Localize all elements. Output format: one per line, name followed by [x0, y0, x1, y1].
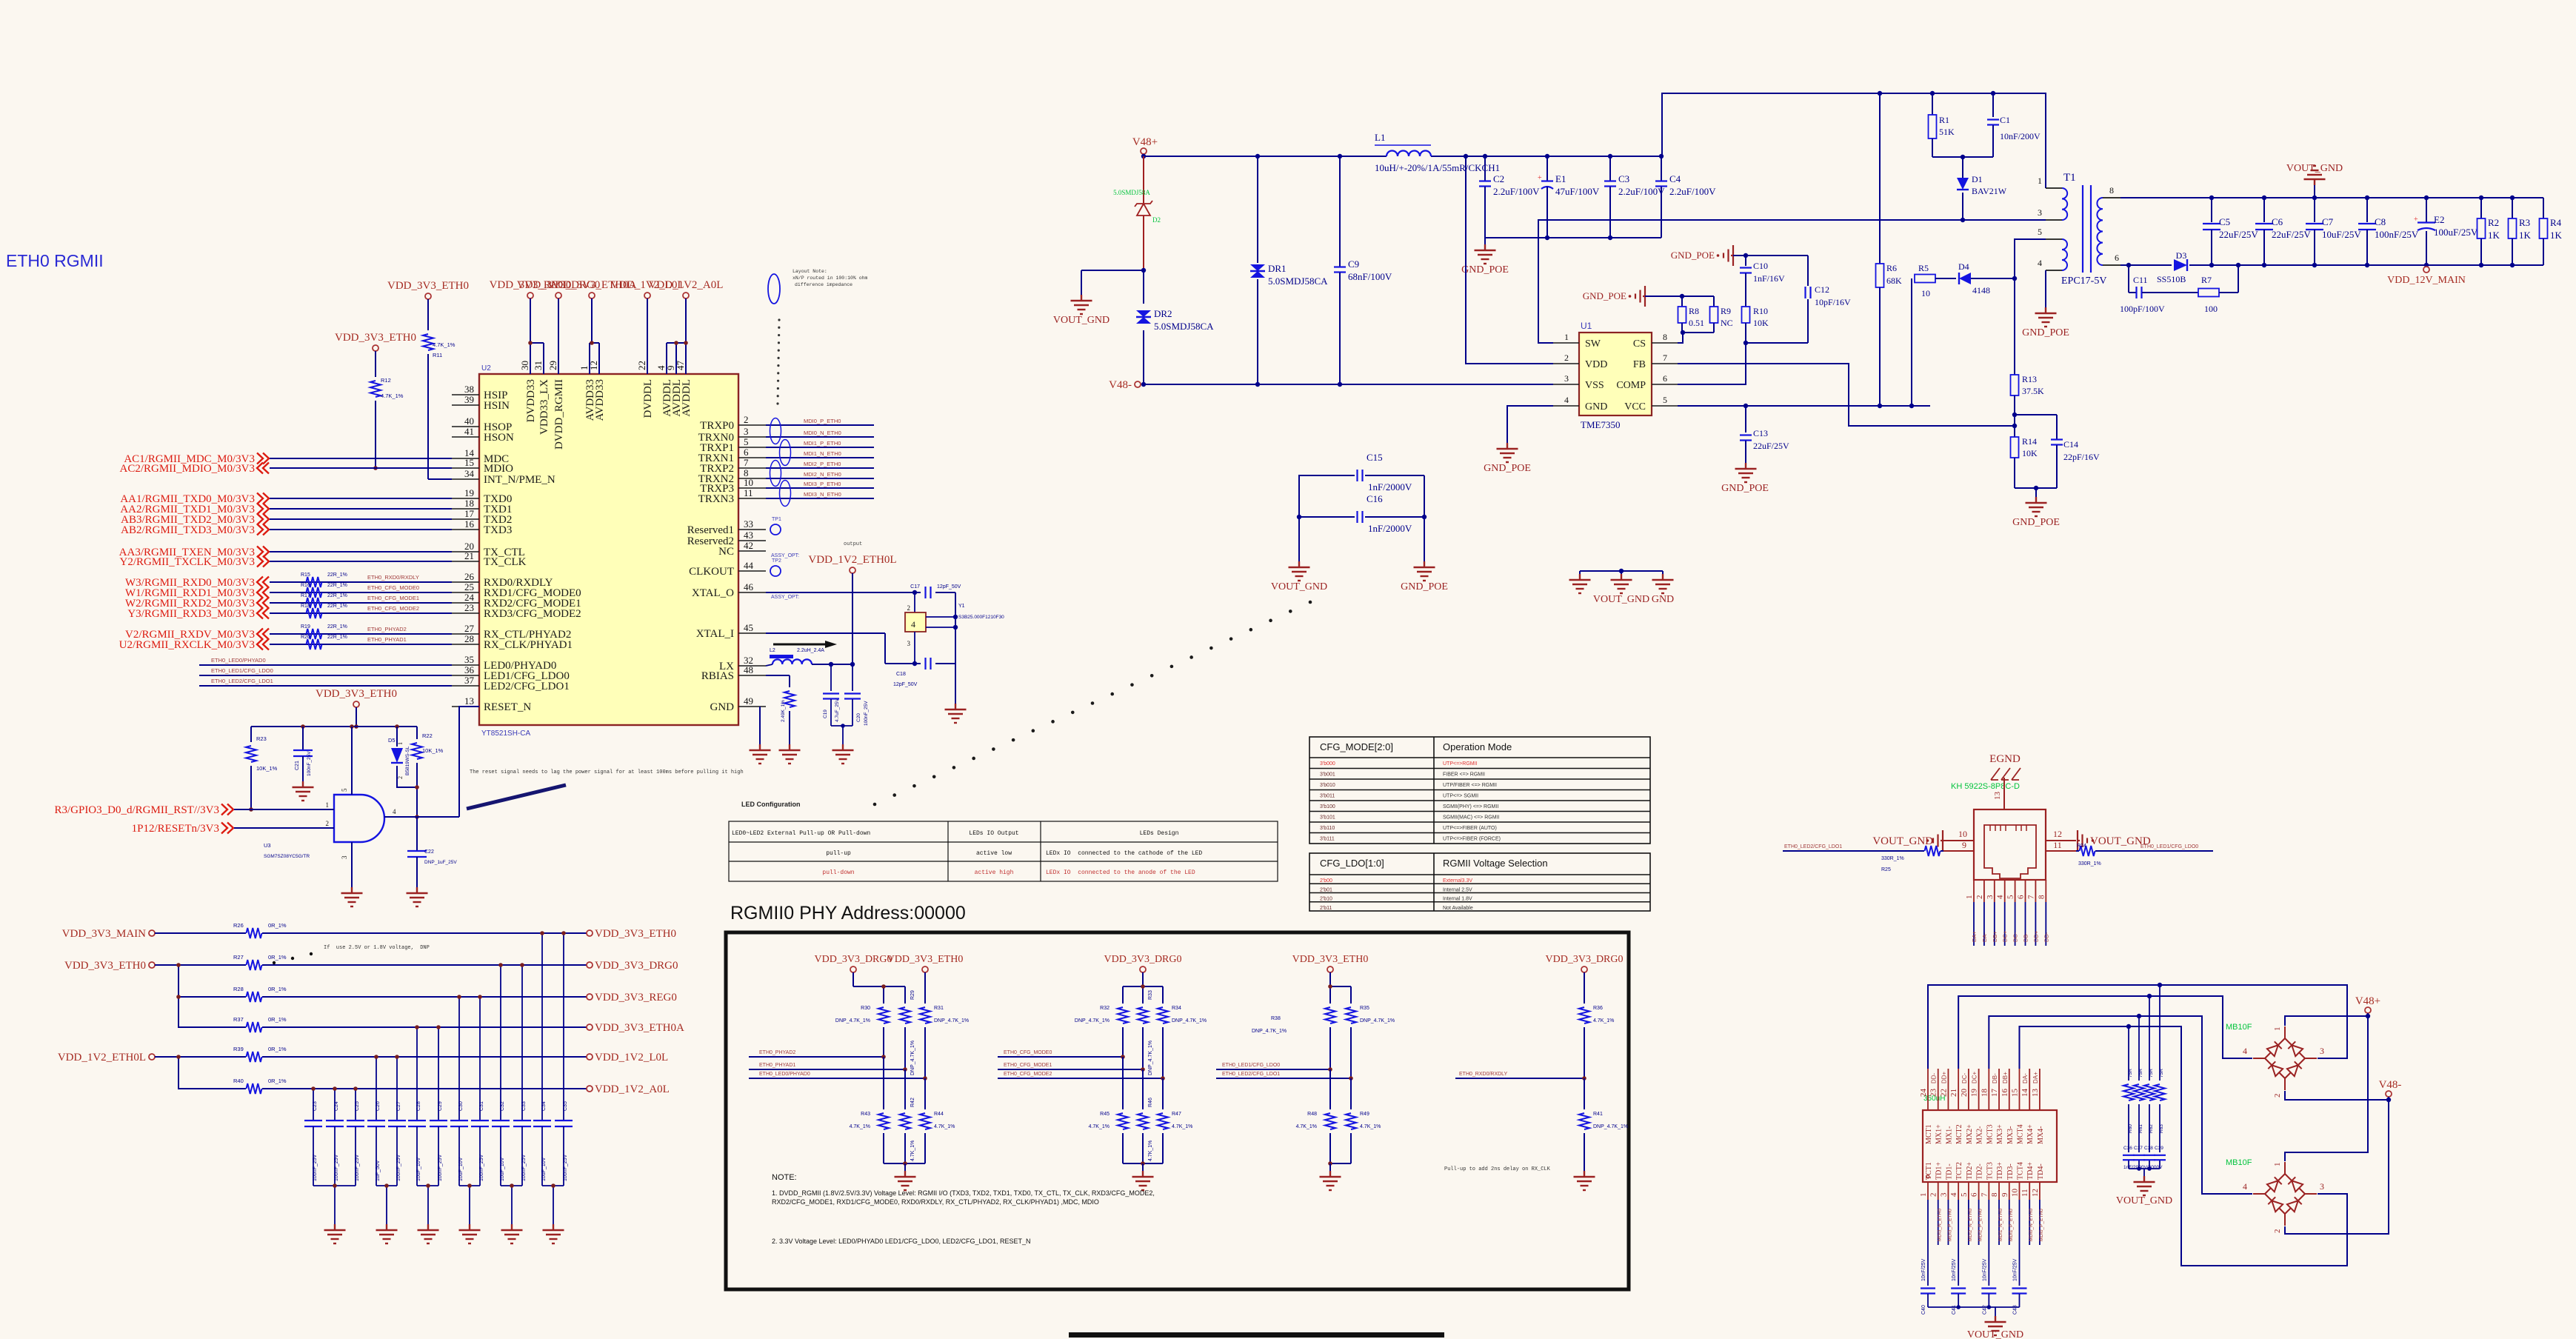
svg-text:SGMII(PHY) <=> RGMII: SGMII(PHY) <=> RGMII [1443, 804, 1498, 809]
wire V48- rail [1144, 384, 1553, 385]
svg-text:48: 48 [744, 664, 753, 675]
ground GND_POE (U1) [1506, 443, 1508, 449]
svg-text:40: 40 [464, 415, 474, 427]
transformer T1 secondary winding [2097, 198, 2103, 265]
svg-text:4.7K_1%: 4.7K_1% [850, 1124, 870, 1129]
svg-text:ETH0_RXD0/RXDLY: ETH0_RXD0/RXDLY [1459, 1072, 1508, 1077]
capacitor C40 10nF [1921, 1287, 1935, 1289]
svg-text:2: 2 [2273, 1229, 2282, 1234]
svg-text:75R: 75R [2159, 1069, 2164, 1078]
svg-text:C36: C36 [2123, 1146, 2132, 1151]
svg-text:5: 5 [744, 436, 749, 447]
svg-text:C1: C1 [2000, 115, 2010, 125]
svg-text:15: 15 [464, 457, 474, 468]
svg-text:12: 12 [2053, 829, 2062, 839]
svg-text:10uF/25V: 10uF/25V [2322, 229, 2361, 240]
svg-text:GND: GND [1652, 594, 1674, 605]
ground GND_POE (C16) [1424, 517, 1425, 561]
inductor L2 2.2uH [773, 659, 812, 664]
svg-text:1K: 1K [2488, 230, 2500, 241]
svg-text:R25: R25 [1881, 867, 1891, 872]
resistor R31 DNP_4.7K [920, 1007, 930, 1024]
svg-text:C6: C6 [2272, 216, 2283, 227]
U2 left pins with numbers [452, 394, 479, 395]
dotted diagonal line [873, 803, 877, 807]
svg-text:36: 36 [464, 664, 475, 675]
svg-text:10K: 10K [2022, 448, 2038, 458]
svg-text:22R_1%: 22R_1% [327, 624, 347, 630]
svg-text:0R_1%: 0R_1% [268, 986, 287, 992]
svg-text:R22: R22 [422, 732, 433, 739]
svg-text:1: 1 [2038, 176, 2042, 186]
magnetics bottom pins [1927, 1182, 1929, 1200]
svg-text:10uH/+-20%/1A/55mR/CKCH1: 10uH/+-20%/1A/55mR/CKCH1 [1375, 162, 1500, 173]
svg-text:DA-: DA- [2022, 1073, 2029, 1083]
svg-text:R38: R38 [1271, 1016, 1281, 1021]
svg-text:3'b001: 3'b001 [1320, 772, 1335, 778]
svg-text:DA+: DA+ [2032, 1072, 2039, 1083]
svg-text:RGMII0 PHY Address:00000: RGMII0 PHY Address:00000 [730, 903, 966, 924]
ground (U3 pin3) [351, 887, 353, 893]
svg-text:ETH0_LED1/CFG_LDO0: ETH0_LED1/CFG_LDO0 [2140, 844, 2198, 849]
svg-text:+: + [1538, 174, 1542, 182]
ground (C22) [416, 887, 418, 893]
svg-text:2'b00: 2'b00 [1320, 878, 1332, 884]
svg-text:1nF/16V: 1nF/16V [1753, 273, 1785, 284]
capacitor C35 [555, 1120, 573, 1121]
svg-text:MX4+: MX4+ [2026, 1124, 2035, 1144]
svg-text:DC-: DC- [1961, 1072, 1968, 1083]
svg-text:ETH0_PHYAD2: ETH0_PHYAD2 [759, 1050, 795, 1055]
svg-text:4: 4 [2243, 1046, 2247, 1056]
svg-text:TCT2: TCT2 [1955, 1162, 1963, 1180]
svg-text:Pull-up to add 2ns delay on RX: Pull-up to add 2ns delay on RX_CLK [1444, 1166, 1551, 1172]
svg-text:VDD_1V2_A0L: VDD_1V2_A0L [649, 279, 724, 291]
resistor R6 68K [1879, 93, 1881, 264]
inductor L1 10uH [1387, 151, 1431, 156]
svg-text:MX3+: MX3+ [1996, 1124, 2004, 1144]
svg-text:20: 20 [1960, 1089, 1969, 1098]
ground (decoupling 2) [376, 1185, 397, 1186]
svg-text:100uF/25V: 100uF/25V [2434, 227, 2478, 238]
svg-text:6: 6 [1663, 373, 1667, 384]
svg-text:R30: R30 [861, 1006, 870, 1011]
svg-text:C4: C4 [1669, 173, 1681, 184]
svg-text:SS510B: SS510B [2157, 274, 2186, 284]
svg-text:8: 8 [1663, 332, 1667, 342]
svg-text:2.2uH_2.4A: 2.2uH_2.4A [797, 648, 824, 653]
diode D2 5.0SMDJ58A [1143, 156, 1144, 203]
svg-text:4.7K_1%: 4.7K_1% [381, 393, 404, 399]
svg-text:VDD_1V2_A0L: VDD_1V2_A0L [595, 1083, 670, 1095]
svg-text:VDD_3V3_ETH0: VDD_3V3_ETH0 [887, 954, 964, 965]
svg-text:CS: CS [1633, 338, 1646, 350]
layout note ellipse [768, 274, 780, 304]
svg-text:1: 1 [397, 742, 404, 745]
svg-text:VOUT_GND: VOUT_GND [1872, 835, 1933, 847]
svg-text:4: 4 [911, 619, 915, 630]
svg-text:R39: R39 [233, 1046, 244, 1052]
svg-text:4.7K_1%: 4.7K_1% [433, 341, 456, 348]
svg-text:AVDD33: AVDD33 [594, 379, 606, 421]
svg-text:MCT3: MCT3 [1986, 1124, 1994, 1144]
resistor R43 4.7K [883, 1057, 884, 1109]
svg-text:ETH0 RGMII: ETH0 RGMII [6, 251, 104, 270]
svg-text:MDI0_N_ETH0: MDI0_N_ETH0 [2029, 1209, 2034, 1241]
svg-text:1: 1 [326, 801, 330, 809]
svg-text:31: 31 [533, 361, 544, 370]
svg-text:37: 37 [464, 675, 475, 686]
svg-text:R15: R15 [301, 572, 310, 578]
resistor R62 75R [2149, 996, 2150, 1081]
svg-text:BAV21W: BAV21W [1972, 186, 2007, 196]
resistor R40 0R [247, 1083, 262, 1094]
svg-text:TCT1: TCT1 [1925, 1162, 1933, 1180]
svg-text:10: 10 [2010, 1189, 2019, 1198]
ground VOUT_GND (output) [2314, 185, 2315, 198]
bridge rectifier BR1 MB10F [2285, 1038, 2305, 1058]
svg-text:DB-: DB- [1992, 1073, 1998, 1083]
capacitor C43 10nF [2012, 1287, 2026, 1289]
svg-text:R48: R48 [1307, 1112, 1317, 1117]
svg-text:HSON: HSON [484, 432, 514, 444]
svg-text:C11: C11 [2133, 275, 2148, 285]
capacitor C7 10uF/25V [2314, 198, 2315, 222]
wire ETH0_CFG_MODE2 [998, 1078, 1163, 1079]
capacitor C1 10nF [1992, 93, 1994, 117]
svg-text:28: 28 [464, 633, 474, 644]
resistor R5 10 [1911, 278, 1912, 406]
svg-text:38: 38 [464, 384, 474, 395]
resistor R17 22R [307, 598, 322, 608]
svg-text:35: 35 [464, 654, 474, 665]
diode D3 SS510B [2174, 259, 2187, 271]
svg-text:5.0SMDJ58CA: 5.0SMDJ58CA [1268, 276, 1328, 287]
svg-text:ETH0_LED2/CFG_LDO1: ETH0_LED2/CFG_LDO1 [1784, 844, 1842, 849]
resistor R20 22R [307, 639, 322, 650]
svg-text:SGMII(MAC) <=> RGMII: SGMII(MAC) <=> RGMII [1443, 815, 1499, 821]
diode D4 4148 [1959, 273, 1971, 284]
svg-text:ETH0_CFG_MODE1: ETH0_CFG_MODE1 [1004, 1063, 1052, 1068]
resistor R60 75R [2128, 1026, 2129, 1081]
svg-text:DNP_4.7K_1%: DNP_4.7K_1% [1252, 1029, 1287, 1034]
svg-text:R14: R14 [2022, 436, 2037, 447]
svg-text:VCC: VCC [1624, 401, 1646, 413]
svg-text:10nF/25V: 10nF/25V [1982, 1258, 1987, 1281]
svg-text:C24: C24 [334, 1101, 339, 1111]
wire rail corner up [1662, 93, 2046, 188]
diff pair ellipse 1 [770, 418, 781, 444]
svg-text:C9: C9 [1348, 258, 1359, 270]
svg-text:ETH0_CFG_MODE2: ETH0_CFG_MODE2 [1004, 1072, 1052, 1077]
svg-text:DA+: DA+ [1971, 931, 1978, 942]
svg-text:18: 18 [1980, 1089, 1989, 1098]
wire reset vdd rail [251, 726, 417, 727]
svg-text:active low: active low [976, 850, 1012, 857]
svg-text:VDD_3V3_ETH0: VDD_3V3_ETH0 [1292, 954, 1369, 965]
power port VDD_12V_MAIN [2423, 267, 2429, 273]
svg-text:C19: C19 [823, 709, 828, 718]
svg-text:RBIAS: RBIAS [701, 670, 734, 682]
svg-text:68nF/100V: 68nF/100V [1348, 271, 1392, 282]
table CFG_LDO [1309, 853, 1650, 911]
wire comp top rail [1733, 255, 1808, 256]
svg-text:8: 8 [2109, 185, 2114, 196]
U1 pins [1553, 342, 1579, 344]
svg-text:2'b10: 2'b10 [1320, 897, 1332, 902]
resistor R36 4.7K [1579, 1007, 1589, 1024]
svg-text:R49: R49 [1360, 1112, 1369, 1117]
svg-text:5: 5 [2006, 895, 2015, 899]
svg-text:11: 11 [2053, 840, 2062, 850]
svg-text:UTP/FIBER <=> RGMII: UTP/FIBER <=> RGMII [1443, 783, 1497, 788]
svg-text:30: 30 [519, 361, 530, 370]
svg-text:RESET_N: RESET_N [484, 701, 531, 713]
svg-text:1: 1 [1965, 895, 1974, 900]
svg-text:1P12/RESETn/3V3: 1P12/RESETn/3V3 [132, 823, 219, 835]
svg-text:Not Available: Not Available [1443, 906, 1473, 911]
svg-text:VDD_3V3_ETH0: VDD_3V3_ETH0 [387, 280, 469, 292]
resistor R49 4.7K [1350, 1078, 1352, 1109]
svg-text:R46: R46 [1148, 1098, 1153, 1107]
wire net MDI2_N_ETH0 [766, 478, 874, 479]
svg-text:DB+: DB+ [1992, 931, 1998, 942]
svg-text:ETH0_PHYAD2: ETH0_PHYAD2 [367, 626, 407, 632]
svg-text:DC+: DC+ [1972, 1071, 1978, 1083]
svg-text:22uF/25V: 22uF/25V [2219, 229, 2258, 240]
svg-text:DD+: DD+ [1941, 1071, 1947, 1083]
ground (tie left) [1579, 574, 1581, 580]
svg-text:4: 4 [2243, 1181, 2247, 1192]
wire MCT2 net [1958, 996, 2252, 1069]
svg-text:VDD: VDD [1585, 359, 1607, 370]
resistor R37 0R [247, 1022, 262, 1032]
capacitor C5 22uF/25V [2211, 198, 2212, 222]
svg-text:22R_1%: 22R_1% [327, 572, 347, 578]
svg-text:3: 3 [2320, 1181, 2324, 1192]
resistor R10 10K [1742, 307, 1750, 323]
svg-text:10: 10 [1921, 288, 1930, 298]
wire G3 rail [1330, 986, 1351, 987]
svg-text:ASSY_OPT:: ASSY_OPT: [771, 553, 799, 558]
wire VCC rail [1678, 405, 1930, 407]
svg-text:MB10F: MB10F [2226, 1158, 2252, 1167]
svg-text:TD2-: TD2- [1976, 1163, 1984, 1180]
capacitors C36-C39 1nF/2000V [2123, 1155, 2135, 1156]
resistor R9 NC [1713, 296, 1715, 307]
svg-text:C25: C25 [355, 1101, 360, 1111]
svg-text:UTP<=>FIBER (AUTO): UTP<=>FIBER (AUTO) [1443, 826, 1497, 831]
test point TP2 [770, 566, 781, 576]
svg-text:ASSY_OPT:: ASSY_OPT: [771, 595, 799, 600]
capacitor C11 100pF snubber [2128, 265, 2129, 293]
svg-text:MDI3_N_ETH0: MDI3_N_ETH0 [804, 491, 841, 498]
ground GND_POE (C13) [1745, 463, 1746, 469]
svg-text:C21: C21 [295, 761, 300, 770]
svg-text:12pF_50V: 12pF_50V [937, 584, 961, 590]
svg-text:C15: C15 [1367, 452, 1383, 463]
svg-text:C7: C7 [2322, 216, 2334, 227]
wire R8R9 top rail [1645, 295, 1714, 297]
capacitor C12 10pF [1807, 256, 1809, 286]
wire VDD tap [1466, 156, 1553, 364]
svg-text:GND_POE: GND_POE [2012, 517, 2060, 528]
wires decoupling cap drops [313, 1089, 314, 1121]
svg-text:V48+: V48+ [2355, 995, 2380, 1007]
svg-text:KH 5922S-8P8C-D: KH 5922S-8P8C-D [1951, 782, 2020, 791]
svg-text:VDD_3V3_DRG0: VDD_3V3_DRG0 [815, 954, 892, 965]
power port VDD_1V2_L0L (right) [587, 1054, 593, 1060]
svg-text:DNP_4.7K_1%: DNP_4.7K_1% [1360, 1018, 1395, 1024]
wire BR1 pin2 to V48- [2285, 1091, 2389, 1100]
svg-text:DNP_4.7K_1%: DNP_4.7K_1% [1148, 1041, 1153, 1075]
svg-text:DR2: DR2 [1154, 308, 1172, 319]
svg-text:0R_1%: 0R_1% [268, 1046, 287, 1052]
svg-text:active high: active high [975, 869, 1014, 876]
svg-text:33: 33 [744, 518, 753, 530]
svg-text:AC2/RGMII_MDIO_M0/3V3: AC2/RGMII_MDIO_M0/3V3 [119, 463, 255, 475]
svg-text:R2: R2 [2488, 217, 2499, 228]
ground (decoupling 1) [313, 1185, 356, 1186]
capacitor C4 2.2uF/100V [1661, 156, 1662, 181]
wire ETH0_LED0/PHYAD0 [749, 1078, 925, 1079]
svg-text:6: 6 [1970, 1192, 1979, 1197]
svg-text:R29: R29 [910, 990, 915, 1000]
svg-text:DNP_4.7K_1%: DNP_4.7K_1% [835, 1018, 870, 1024]
svg-text:22R_1%: 22R_1% [327, 604, 347, 609]
svg-text:10nF/200V: 10nF/200V [2000, 131, 2041, 141]
svg-text:DD+: DD+ [2032, 930, 2039, 942]
svg-text:3: 3 [744, 426, 749, 437]
connector J1 RJ45 body [1974, 809, 2046, 880]
svg-text:VDD_3V3_MAIN: VDD_3V3_MAIN [62, 928, 146, 940]
svg-text:13: 13 [464, 695, 474, 707]
resistor R32 DNP_4.7K [1118, 1007, 1128, 1024]
svg-text:L1: L1 [1375, 132, 1385, 143]
svg-text:15: 15 [2010, 1089, 2019, 1098]
svg-text:R27: R27 [233, 954, 244, 961]
svg-text:4.7K_1%: 4.7K_1% [1172, 1124, 1192, 1129]
wire GND pin49 [759, 707, 761, 744]
svg-text:29: 29 [547, 361, 558, 370]
svg-text:C16: C16 [1367, 493, 1383, 504]
svg-text:LED2/CFG_LDO1: LED2/CFG_LDO1 [484, 681, 570, 692]
svg-text:13: 13 [1993, 792, 2002, 801]
test point TP1 [770, 524, 781, 535]
svg-text:B5819WS-SL: B5819WS-SL [405, 746, 410, 775]
svg-text:R11: R11 [433, 352, 442, 358]
wire output rail [2189, 264, 2543, 266]
svg-text:U1: U1 [1581, 321, 1592, 331]
svg-text:47uF/100V: 47uF/100V [1555, 186, 1600, 197]
svg-text:ETH0_LED1/CFG_LDO0: ETH0_LED1/CFG_LDO0 [1222, 1063, 1280, 1068]
svg-text:R42: R42 [910, 1098, 915, 1107]
wire ETH0_PHYAD1 [749, 1069, 905, 1070]
svg-text:7: 7 [1663, 353, 1667, 363]
svg-text:R20: R20 [301, 635, 310, 640]
svg-text:UTP<=>RGMII: UTP<=>RGMII [1443, 761, 1478, 767]
svg-text:TRXN3: TRXN3 [698, 493, 734, 505]
svg-text:TCT4: TCT4 [2016, 1162, 2024, 1180]
svg-text:R16: R16 [301, 583, 310, 588]
svg-text:CFG_MODE[2:0]: CFG_MODE[2:0] [1320, 741, 1393, 752]
svg-text:RX_CLK/PHYAD1: RX_CLK/PHYAD1 [484, 639, 573, 651]
wire MCT4 net [2019, 1026, 2347, 1266]
resistor R15 22R [307, 577, 322, 587]
svg-text:R10: R10 [1753, 306, 1768, 316]
svg-text:19: 19 [1970, 1089, 1979, 1098]
ground (G2) [1123, 1163, 1163, 1164]
dotted vertical line [778, 318, 780, 321]
svg-text:Y1: Y1 [958, 604, 965, 609]
svg-text:DA-: DA- [1981, 932, 1988, 942]
wire pin4 gnd [2045, 270, 2046, 307]
svg-text:4: 4 [393, 808, 396, 815]
svg-text:TD2+: TD2+ [1966, 1162, 1974, 1180]
svg-text:R26: R26 [233, 922, 244, 929]
svg-text:R35: R35 [1360, 1006, 1369, 1011]
svg-text:TD3-: TD3- [2006, 1163, 2015, 1180]
TVS DR2 5.0SMDJ58CA [1143, 270, 1144, 304]
svg-text:43: 43 [744, 530, 753, 541]
svg-text:R47: R47 [1172, 1112, 1181, 1117]
capacitor C13 22uF [1745, 406, 1746, 433]
svg-text:12pF_50V: 12pF_50V [893, 682, 918, 687]
svg-text:Layout Note:: Layout Note: [793, 269, 827, 274]
svg-text:C42: C42 [1982, 1305, 1987, 1315]
wire net MDI0_P_ETH0 [766, 424, 874, 426]
svg-text:FIBER <=> RGMII: FIBER <=> RGMII [1443, 772, 1485, 778]
power port VDD_1V2_A0L (right) [587, 1086, 593, 1092]
capacitor C14 22pF [2015, 414, 2057, 415]
svg-text:TD1-: TD1- [1945, 1163, 1953, 1180]
svg-text:5: 5 [1960, 1192, 1969, 1197]
svg-text:10pF/16V: 10pF/16V [1815, 297, 1851, 307]
wire gate vcc pin5 [351, 727, 353, 795]
resistor R1 51K [1932, 93, 1933, 115]
svg-text:2'b11: 2'b11 [1320, 906, 1332, 911]
resistor R28 0R [247, 992, 262, 1002]
svg-text:14: 14 [2021, 1089, 2029, 1098]
svg-text:1: 1 [1564, 332, 1569, 342]
svg-text:GND_POE: GND_POE [1671, 250, 1715, 261]
svg-text:VDD_3V3_DRG0: VDD_3V3_DRG0 [1546, 954, 1624, 965]
wire 3v3 branch [178, 965, 246, 1027]
svg-text:C18: C18 [896, 672, 906, 677]
ground (decoupling 6) [542, 1185, 564, 1186]
svg-text:HSIN: HSIN [484, 400, 510, 412]
svg-text:16: 16 [464, 518, 475, 530]
controller U1 TME7350 body [1579, 333, 1652, 415]
svg-text:4: 4 [2038, 258, 2042, 268]
svg-text:100nF_25V: 100nF_25V [307, 751, 312, 776]
svg-text:VDD_3V3_REG0: VDD_3V3_REG0 [595, 992, 677, 1004]
svg-text:2: 2 [2273, 1094, 2282, 1098]
svg-text:2: 2 [744, 414, 749, 425]
capacitor C30 [450, 1120, 468, 1121]
U2 top power pins [530, 343, 531, 374]
svg-text:4.7K_1%: 4.7K_1% [1296, 1124, 1317, 1129]
resistor R61 75R [2138, 1016, 2140, 1081]
wire secondary bottom rail [2120, 264, 2172, 266]
svg-text:R31: R31 [934, 1006, 944, 1011]
wire FB route [1678, 364, 2015, 426]
svg-text:TCT3: TCT3 [1986, 1162, 1994, 1180]
svg-text:ETH0_LED0/PHYAD0: ETH0_LED0/PHYAD0 [759, 1072, 810, 1077]
svg-text:24: 24 [1919, 1089, 1928, 1098]
wire ETH0_CFG_MODE0 [998, 1056, 1123, 1058]
svg-text:INT_N/PME_N: INT_N/PME_N [484, 474, 555, 486]
